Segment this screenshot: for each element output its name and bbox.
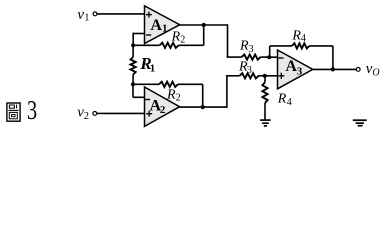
svg-text:1: 1	[84, 13, 89, 24]
wire A1 output	[180, 24, 228, 26]
wire A2 inverting input to feedback node	[133, 84, 145, 97]
svg-text:2: 2	[84, 111, 89, 122]
svg-text:R: R	[171, 29, 181, 44]
ground (reference, right)	[353, 120, 367, 126]
svg-text:O: O	[372, 68, 379, 79]
junction A2 output / R2	[201, 105, 205, 109]
svg-text:4: 4	[287, 97, 292, 108]
wire A1 output down to R3 (top)	[227, 24, 229, 57]
junction A2 feedback node	[131, 82, 135, 86]
junction A3 non-inverting node	[263, 74, 267, 78]
wire to A3 non-inverting input	[265, 75, 278, 77]
svg-text:3: 3	[297, 66, 303, 78]
wire A1 inverting input to feedback node	[133, 33, 144, 46]
wire v2 to A2 + input	[97, 112, 145, 114]
svg-text:2: 2	[176, 93, 181, 104]
svg-text:R: R	[239, 39, 249, 54]
op-amp A2	[145, 87, 180, 126]
wire v1 to A1 + input	[97, 13, 144, 15]
svg-text:A: A	[285, 58, 297, 75]
svg-text:R: R	[291, 28, 301, 43]
svg-text:2: 2	[180, 34, 185, 45]
op-amp A3	[278, 50, 313, 89]
svg-text:R: R	[277, 92, 287, 107]
resistor R4 (to ground, bottom)	[262, 76, 291, 120]
resistor R3 (top)	[227, 39, 270, 60]
svg-text:3: 3	[249, 44, 254, 55]
junction A3 output / R4	[331, 67, 335, 71]
resistor R3 (bottom)	[226, 59, 265, 78]
caption 圖 3 (Figure 3)	[7, 96, 37, 125]
resistor R4 (feedback, top)	[270, 28, 333, 69]
wire A3 output	[313, 68, 357, 70]
wire to A3 inverting input	[269, 56, 277, 58]
junction A1 feedback node	[131, 43, 135, 47]
svg-text:4: 4	[301, 33, 306, 44]
resistor R2 (A1 feedback)	[133, 25, 204, 48]
wire A2 output up to R3 (bottom)	[226, 76, 228, 108]
svg-text:3: 3	[27, 96, 37, 125]
ground (below R4)	[260, 120, 271, 126]
svg-text:2: 2	[160, 104, 166, 116]
wire A2 output	[180, 106, 227, 108]
node vO (output terminal)	[356, 61, 379, 79]
svg-text:R: R	[166, 87, 176, 102]
svg-text:A: A	[150, 17, 162, 34]
resistor R2 (A2 feedback)	[133, 82, 203, 107]
junction A1 output / R2	[202, 23, 206, 27]
svg-text:3: 3	[247, 65, 252, 76]
svg-text:1: 1	[162, 22, 168, 34]
svg-text:1: 1	[150, 62, 156, 74]
resistor R1	[131, 45, 156, 84]
op-amp A1	[145, 6, 180, 44]
node v2 (input terminal)	[77, 104, 97, 122]
junction A3 inverting node	[267, 55, 271, 59]
node v1 (input terminal)	[77, 7, 97, 23]
